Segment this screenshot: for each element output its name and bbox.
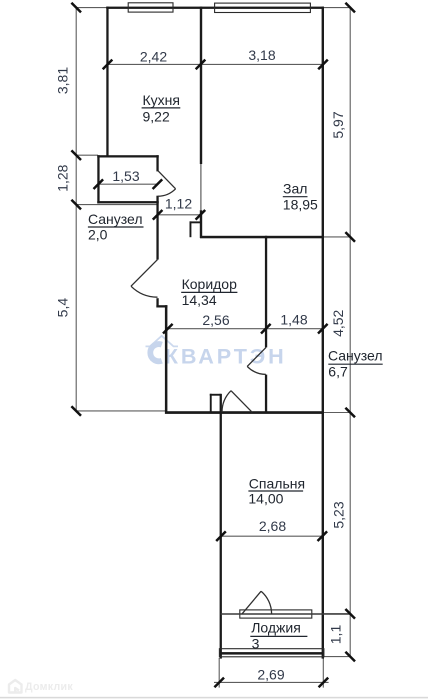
zal bottom extension (324, 236, 350, 238)
WALLS (97, 7, 324, 659)
ROOM LABELS (88, 92, 383, 652)
svg-text:1,28: 1,28 (55, 164, 71, 191)
ticks 2,56 1,48 (163, 324, 173, 334)
right outer wall (322, 7, 324, 659)
svg-text:Санузел: Санузел (328, 348, 383, 364)
svg-text:9,22: 9,22 (143, 109, 170, 125)
loggia right extension down (322, 658, 324, 688)
svg-text:2,0: 2,0 (88, 227, 108, 243)
ticks right dim line (345, 3, 355, 13)
DIMENSION / THIN LINES (76, 7, 350, 688)
svg-text:3: 3 (252, 636, 260, 652)
top-right extension (324, 7, 351, 9)
DOORS (131, 171, 272, 614)
kitchen-zal wall thin middle segment (200, 164, 202, 210)
bathroom wall jog horizontal (156, 305, 167, 307)
zal corner pillar top edge (190, 221, 201, 223)
watermark KVARTEN icon roof (146, 336, 179, 347)
svg-text:2,42: 2,42 (140, 48, 167, 64)
sanuzel 6.7 door arc (247, 366, 266, 374)
bottom dimension line 2,69 (214, 681, 329, 683)
right dimension line (349, 7, 351, 657)
ticks 1,53 (94, 179, 104, 189)
svg-text:14,34: 14,34 (182, 292, 217, 308)
kitchen-zal wall upper thick (200, 7, 202, 164)
watermark DomKlik house icon (9, 680, 22, 693)
top-left extension (76, 7, 107, 9)
left bathroom door arc (131, 286, 158, 297)
bedroom door leaf (231, 391, 252, 413)
svg-text:Коридор: Коридор (182, 276, 238, 292)
bedroom-loggia partition line (221, 613, 351, 615)
zal window (215, 3, 311, 12)
closet right wall upper (156, 155, 158, 171)
svg-text:Санузел: Санузел (88, 211, 143, 227)
DIMENSION TEXTS (55, 47, 347, 683)
closet door arc (158, 189, 176, 197)
svg-text:3,18: 3,18 (248, 47, 275, 63)
closet left wall (97, 155, 99, 203)
kitchen doorway dimension line 1,12 (158, 214, 202, 216)
sanuzel 6.7 door leaf (247, 347, 266, 366)
left bathroom right wall lower (156, 298, 158, 307)
closet dimension line 1,53 (98, 183, 157, 185)
bedroom top extension (324, 412, 350, 414)
svg-text:Домклик: Домклик (25, 681, 73, 693)
kitchen left wall (106, 7, 108, 157)
loggia glazing band (219, 649, 324, 657)
WINDOWS (128, 3, 324, 657)
loggia bottom extension (324, 656, 350, 658)
balcony door arc (261, 591, 272, 614)
corridor bottom / bedroom top wall (165, 411, 324, 414)
corridor dimension line 2,56 / 1,48 (166, 328, 323, 330)
svg-text:3,81: 3,81 (55, 67, 71, 94)
svg-text:Зал: Зал (283, 181, 307, 197)
closet bottom wall (97, 201, 158, 203)
bedroom dimension line 2,68 (221, 535, 322, 537)
svg-text:1,48: 1,48 (280, 311, 307, 327)
kitchen-zal wall lower thick (200, 210, 202, 238)
svg-text:14,00: 14,00 (248, 491, 283, 507)
svg-text:Спальня: Спальня (249, 475, 305, 491)
svg-text:Лоджия: Лоджия (251, 620, 301, 636)
closet top wall (97, 155, 158, 157)
svg-text:5,23: 5,23 (331, 501, 347, 528)
balcony door leaf (242, 591, 261, 614)
svg-text:5,4: 5,4 (55, 298, 71, 318)
zal bottom wall (200, 236, 324, 239)
top outer wall (106, 7, 323, 9)
extension line y155 (76, 154, 98, 156)
sanuzel 6.7 left wall upper (265, 236, 267, 348)
svg-text:1,1: 1,1 (328, 625, 344, 645)
left bathroom door leaf (131, 260, 158, 287)
svg-text:5,97: 5,97 (330, 111, 346, 138)
ticks left dim line (71, 3, 81, 13)
balcony door window (240, 610, 312, 618)
loggia bottom thick line (219, 652, 324, 655)
closet door leaf (158, 171, 176, 189)
ticks 1,12 (153, 210, 163, 220)
svg-text:Кухня: Кухня (143, 92, 180, 108)
left bathroom right wall upper (156, 203, 158, 259)
loggia left extension down (218, 658, 220, 688)
svg-text:1,12: 1,12 (165, 195, 192, 211)
sanuzel 6.7 left wall lower (265, 375, 267, 414)
closet right wall lower (156, 196, 158, 204)
bedroom door jamb duct left (210, 394, 212, 413)
ticks 2,68 (216, 531, 226, 541)
kitchen window (128, 3, 173, 12)
svg-text:2,69: 2,69 (257, 666, 284, 682)
svg-text:18,95: 18,95 (283, 197, 318, 213)
corridor left wall lower (165, 305, 168, 411)
DIMENSION TICKS (71, 3, 355, 687)
svg-text:КВАРТЭН: КВАРТЭН (165, 343, 287, 368)
svg-text:1,53: 1,53 (112, 168, 139, 184)
ticks top dim line (103, 60, 113, 70)
watermark KVARTEN icon C (150, 344, 161, 361)
svg-text:6,7: 6,7 (328, 364, 348, 380)
svg-text:2,68: 2,68 (259, 518, 286, 534)
bedroom left wall (220, 394, 222, 659)
ticks 2,69 (214, 678, 224, 688)
svg-text:2,56: 2,56 (202, 312, 229, 328)
loggia partition extension to dim line (324, 613, 350, 615)
extension line y204.6 (76, 204, 156, 206)
top dimension line 2,42 / 3,18 (107, 63, 323, 65)
watermark bottom gray line (0, 697, 428, 699)
left area bottom thin line (76, 410, 166, 412)
bedroom door arc (222, 391, 231, 413)
svg-text:4,52: 4,52 (330, 309, 346, 336)
zal corner pillar left edge (190, 221, 192, 237)
left dimension line (75, 7, 77, 412)
bedroom door jamb duct top (210, 394, 221, 396)
